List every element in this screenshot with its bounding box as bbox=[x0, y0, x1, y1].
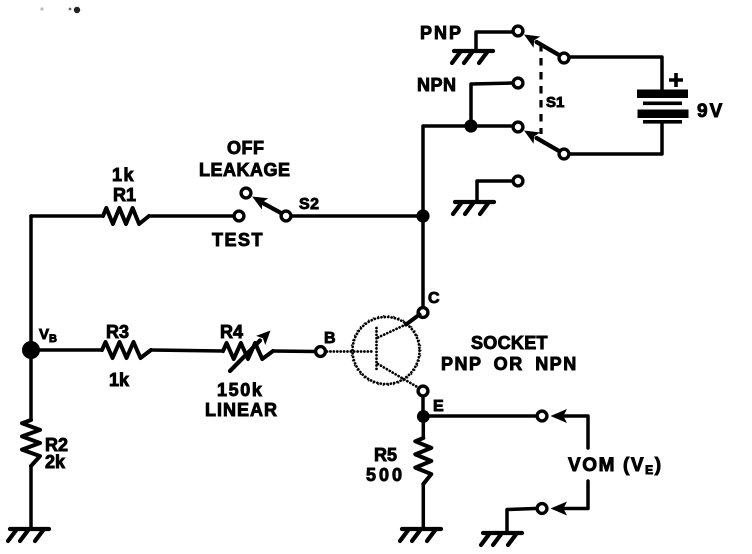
transistor socket outline fuzz ring bbox=[351, 316, 421, 386]
transistor collector lead dotted bbox=[378, 324, 408, 338]
node VB junction bbox=[22, 341, 40, 359]
terminal VOM lower bbox=[537, 504, 547, 514]
ground below R5 bbox=[400, 529, 441, 541]
wire VOM lower to ground bbox=[507, 509, 535, 533]
switch S2 pole contact bbox=[281, 211, 291, 221]
wire VOM upper corner bbox=[564, 416, 588, 448]
wire E node down to R5 bbox=[422, 417, 426, 439]
svg-text:TEST: TEST bbox=[212, 230, 264, 250]
battery B1 short plate bottom bbox=[643, 120, 682, 124]
switch S1 lower arrow bbox=[524, 131, 540, 144]
wire rail to R1 bbox=[31, 214, 101, 218]
switch S1 gang dashed link bbox=[539, 44, 542, 134]
transistor emitter lead dotted bbox=[378, 364, 419, 388]
switch S1 upper fixed contact bbox=[513, 26, 523, 36]
resistor R2 bbox=[22, 420, 40, 466]
svg-text:PNP: PNP bbox=[420, 23, 463, 43]
svg-text:1k: 1k bbox=[109, 370, 130, 390]
scan speck bbox=[74, 7, 80, 13]
battery B1 long plate bottom bbox=[638, 110, 689, 119]
wire NPN corner bbox=[471, 83, 512, 126]
switch S1 lower pole contact bbox=[559, 149, 569, 159]
battery B1 short plate bbox=[643, 102, 682, 106]
wire R4 to B terminal bbox=[273, 349, 315, 353]
svg-text:LEAKAGE: LEAKAGE bbox=[199, 160, 291, 180]
ground at VOM lower bbox=[481, 533, 522, 545]
svg-text:2k: 2k bbox=[45, 452, 66, 472]
resistor R1 bbox=[103, 208, 149, 224]
potentiometer R4 bbox=[223, 343, 273, 359]
terminal C bbox=[418, 308, 428, 318]
svg-text:R3: R3 bbox=[106, 322, 129, 342]
resistor R3 bbox=[102, 342, 151, 358]
wire S2 to center junction bbox=[292, 214, 423, 218]
terminal VOM upper bbox=[537, 411, 547, 421]
potentiometer R4 wiper arrow bbox=[256, 331, 270, 346]
wire S1 upper pole to battery + bbox=[570, 57, 662, 89]
svg-text:NPN: NPN bbox=[417, 75, 457, 95]
terminal unused S1 contact bbox=[513, 176, 523, 186]
svg-text:B: B bbox=[324, 330, 336, 347]
svg-text:PNP OR NPN: PNP OR NPN bbox=[441, 354, 578, 374]
ground at PNP bbox=[452, 51, 493, 63]
svg-text:500: 500 bbox=[366, 465, 405, 485]
switch S2 blade bbox=[260, 202, 281, 214]
switch S1 upper pole contact bbox=[559, 53, 569, 63]
switch S1 lower blade bbox=[537, 138, 560, 151]
switch S1 lower fixed contact bbox=[513, 122, 523, 132]
node junction collector rail bbox=[416, 209, 429, 222]
wire battery - to S1 lower pole bbox=[570, 124, 662, 154]
wire E node to VOM upper bbox=[423, 414, 535, 418]
resistor R5 bbox=[415, 438, 431, 484]
potentiometer R4 wiper shaft bbox=[230, 341, 260, 372]
VOM upper lead arrow bbox=[551, 409, 568, 423]
wire PNP contact to ground bbox=[476, 32, 512, 49]
battery plus sign bbox=[669, 73, 683, 87]
svg-text:R4: R4 bbox=[220, 322, 243, 342]
svg-text:R5: R5 bbox=[374, 445, 397, 465]
svg-text:C: C bbox=[428, 290, 440, 307]
svg-text:S1: S1 bbox=[546, 94, 564, 111]
transistor collector lead solid bbox=[406, 315, 420, 325]
battery B1 long plate top bbox=[637, 90, 688, 99]
transistor socket outline dotted circle bbox=[353, 317, 420, 384]
wire VOM vertical lower bbox=[564, 481, 588, 509]
svg-text:E: E bbox=[433, 398, 444, 415]
ground below R2 bbox=[8, 529, 49, 541]
wire VB node to R3 bbox=[31, 348, 102, 352]
svg-text:S2: S2 bbox=[299, 196, 320, 213]
wire VB node down to R2 bbox=[29, 350, 33, 420]
transistor base bar bbox=[375, 328, 378, 371]
svg-text:SOCKET: SOCKET bbox=[471, 333, 548, 353]
svg-text:9V: 9V bbox=[697, 101, 724, 122]
node junction NPN line bbox=[464, 119, 477, 132]
switch S1 upper arrow bbox=[524, 35, 540, 48]
terminal NPN bbox=[513, 78, 523, 88]
svg-text:OFF: OFF bbox=[227, 138, 265, 158]
switch S2 arrow bbox=[252, 197, 268, 210]
wire R2 to ground bbox=[29, 466, 33, 529]
wire left rail bbox=[29, 216, 33, 347]
svg-text:LINEAR: LINEAR bbox=[205, 400, 278, 420]
wire E terminal to node bbox=[421, 397, 425, 412]
wire R3 to R4 bbox=[151, 350, 223, 351]
svg-text:150k: 150k bbox=[217, 380, 263, 400]
switch S2 TEST contact bbox=[234, 211, 244, 221]
transistor base lead bbox=[327, 350, 374, 353]
terminal B bbox=[316, 347, 326, 357]
switch S1 upper blade bbox=[537, 42, 560, 55]
wire R1 to switch S2 bbox=[151, 214, 233, 218]
wire junction down to C terminal bbox=[421, 216, 425, 306]
switch S2 OFF contact bbox=[241, 188, 251, 198]
VOM lower lead arrow bbox=[551, 502, 568, 516]
svg-text:R1: R1 bbox=[113, 185, 136, 205]
terminal E bbox=[418, 386, 428, 396]
wire unused contact to ground bbox=[477, 181, 511, 200]
node E junction bbox=[417, 410, 430, 423]
wire junction up to S1 feed bbox=[423, 126, 512, 216]
ground below unused contact bbox=[453, 202, 494, 214]
wire R5 to ground bbox=[422, 484, 426, 529]
svg-text:1k: 1k bbox=[112, 165, 135, 185]
